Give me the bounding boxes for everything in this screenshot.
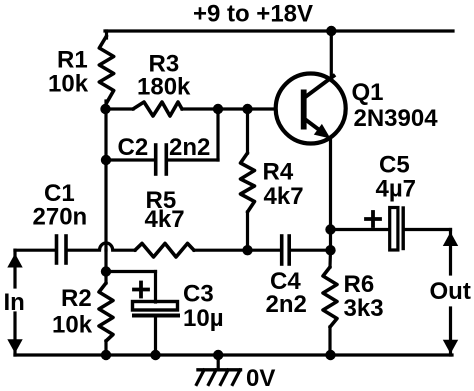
svg-text:R4: R4 [263, 159, 294, 186]
svg-text:4k7: 4k7 [145, 206, 185, 233]
svg-text:10k: 10k [52, 312, 93, 339]
svg-text:2N3904: 2N3904 [354, 105, 439, 132]
svg-text:Out: Out [430, 278, 471, 305]
svg-text:2n2: 2n2 [266, 291, 307, 318]
svg-text:270n: 270n [33, 204, 88, 231]
svg-text:4k7: 4k7 [264, 183, 304, 210]
svg-text:C2: C2 [118, 134, 149, 161]
svg-text:180k: 180k [137, 74, 191, 101]
svg-text:R2: R2 [61, 285, 92, 312]
svg-text:C3: C3 [183, 281, 214, 308]
svg-text:4µ7: 4µ7 [376, 176, 417, 203]
svg-text:10µ: 10µ [183, 305, 224, 332]
svg-text:0V: 0V [246, 365, 275, 391]
svg-text:+9 to +18V: +9 to +18V [193, 1, 313, 28]
svg-text:R6: R6 [344, 271, 375, 298]
svg-text:C5: C5 [379, 152, 410, 179]
svg-text:10k: 10k [48, 71, 89, 98]
svg-text:3k3: 3k3 [344, 295, 384, 322]
svg-text:R1: R1 [57, 47, 88, 74]
svg-text:2n2: 2n2 [169, 134, 210, 161]
svg-text:In: In [4, 289, 25, 316]
svg-text:Q1: Q1 [352, 79, 384, 106]
